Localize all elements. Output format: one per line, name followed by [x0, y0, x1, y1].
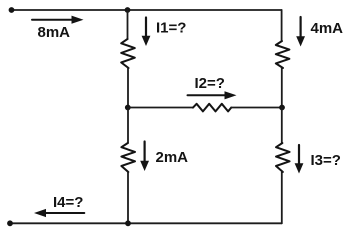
wire: top rail	[12, 9, 282, 11]
wire: right branch from resistor to bottom rail	[281, 172, 283, 223]
resistor (I3 branch, vertical zigzag)	[276, 143, 290, 172]
label: I3=?	[311, 152, 341, 169]
current arrow 2mA (pointing down)	[140, 142, 149, 172]
node: center junction (middle branch / I2 rung)	[125, 105, 131, 111]
svg-text:8mA: 8mA	[38, 24, 71, 41]
label: I2=?	[195, 75, 225, 92]
wire: middle branch from resistor to bottom rail	[127, 172, 129, 223]
label: 2mA value	[156, 149, 189, 166]
wire: right branch from resistor to middle node	[281, 68, 283, 108]
resistor (I1 branch, vertical zigzag)	[121, 39, 135, 68]
svg-text:2mA: 2mA	[156, 149, 189, 166]
svg-text:I1=?: I1=?	[156, 20, 186, 37]
wire: right branch lower lead	[281, 108, 283, 144]
current arrow I4 (out of node, pointing left)	[34, 209, 84, 217]
node: bottom junction (bottom rail / middle branch)	[125, 220, 131, 226]
svg-text:I3=?: I3=?	[311, 152, 341, 169]
label: 8mA value	[38, 24, 71, 41]
wire: I2 rung left lead	[128, 107, 193, 109]
label: I4=?	[53, 194, 83, 211]
wire: I2 rung right lead	[231, 107, 282, 109]
resistor (4mA branch, vertical zigzag)	[276, 41, 290, 68]
label: 4mA value	[311, 20, 344, 37]
node: top junction (top rail / middle branch)	[125, 7, 131, 13]
terminal dot: top-left input node	[9, 7, 15, 13]
current arrow I2 (pointing right)	[188, 91, 237, 99]
resistor (2mA branch, vertical zigzag)	[121, 143, 135, 172]
svg-text:4mA: 4mA	[311, 20, 344, 37]
svg-text:I4=?: I4=?	[53, 194, 83, 211]
wire: middle branch lower lead	[127, 108, 129, 144]
node: right junction (right branch / I2 rung)	[279, 105, 285, 111]
current arrow I1 (pointing down)	[142, 18, 151, 47]
current arrow 8mA (into node, pointing right)	[32, 16, 84, 24]
current arrow 4mA (pointing down)	[296, 17, 305, 47]
terminal dot: bottom-left output node	[7, 220, 13, 226]
current arrow I3 (pointing down)	[295, 145, 304, 174]
wire: middle branch from resistor to center node	[127, 68, 129, 108]
wire: middle branch upper lead	[127, 10, 129, 39]
wire: right branch upper lead	[281, 10, 283, 41]
svg-text:I2=?: I2=?	[195, 75, 225, 92]
wire: bottom rail	[10, 222, 282, 224]
label: I1=?	[156, 20, 186, 37]
resistor (I2 rung, horizontal zigzag)	[193, 104, 231, 112]
